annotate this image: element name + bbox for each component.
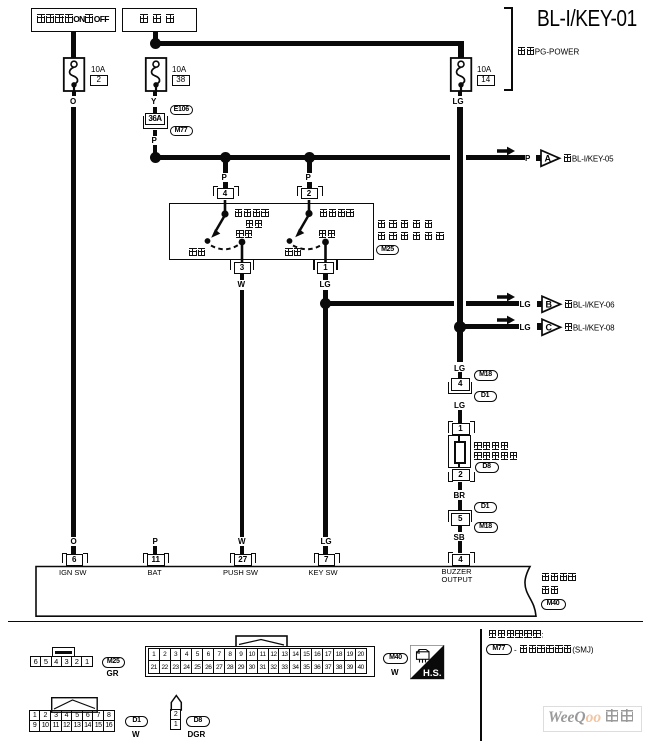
- svg-text:H.S.: H.S.: [423, 668, 441, 679]
- connector oval D8 bottom: [186, 716, 210, 728]
- label KEY SW: [309, 568, 338, 577]
- arrow marker row B: [497, 292, 516, 302]
- label 按下: [236, 230, 254, 240]
- triangle B to BL-I/KEY-06: [541, 295, 563, 314]
- connector D8 pin column: [170, 709, 182, 730]
- arrow marker row C: [497, 315, 516, 325]
- ignition knob switch symbol: [169, 196, 269, 262]
- wire color P at arrow A: [525, 154, 530, 163]
- annotation 单元 unit line 2: [541, 586, 559, 596]
- wire stub below pin 3: [240, 274, 245, 280]
- label 开关: [245, 220, 263, 230]
- triangle A to BL-I/KEY-05: [540, 149, 562, 168]
- wire from battery to junction: [153, 31, 158, 43]
- battery box: [122, 8, 197, 32]
- buzzer label 智能钥匙: [474, 442, 510, 452]
- key switch and ignition knob switch box M25: [169, 203, 374, 260]
- vertical divider bottom right: [480, 629, 482, 741]
- wire color LG at arrow C: [520, 323, 531, 332]
- connector oval M40 unit: [541, 599, 566, 611]
- buzzer label 警告蜂鸣器: [474, 452, 518, 462]
- destination label 至BL-I/KEY-05: [563, 154, 613, 164]
- connector D1 key tab: [51, 697, 98, 713]
- wire LG fuse line from dot to connector M18: [457, 331, 463, 362]
- wire LG down to KEY SW pin: [323, 308, 328, 537]
- wire stub below buzzer: [458, 482, 463, 490]
- wire color LG at arrow B: [520, 300, 531, 309]
- connector square C: [537, 323, 542, 330]
- destination label 至BL-I/KEY-08: [564, 323, 614, 333]
- fuse 3 number box 14: [477, 75, 496, 87]
- PG-POWER bracket: [504, 7, 514, 91]
- LG branch bus row C: [460, 324, 519, 329]
- connector oval M40 bottom: [383, 653, 408, 665]
- pin 7 KEY SW: [314, 553, 339, 567]
- LG junction dot: [320, 298, 331, 309]
- key switch symbol: [253, 196, 353, 262]
- connector oval D1 upper: [474, 391, 497, 402]
- connector M40 pin grid: [148, 648, 367, 673]
- wire stub below fuse 2: [72, 91, 77, 96]
- smart key unit box M40: [34, 564, 544, 620]
- label GR: [107, 669, 119, 678]
- fuse 10A/2: [62, 57, 86, 93]
- wire color P above pin 11: [153, 537, 158, 546]
- LG branch bus left segment: [323, 301, 454, 306]
- pin 11 BAT: [143, 553, 168, 567]
- wire LG to junction: [323, 290, 328, 300]
- note 参见PG-POWER: [517, 47, 579, 57]
- label BUZZER OUTPUT: [442, 568, 473, 585]
- wire color W above pin 27: [238, 537, 246, 546]
- connector oval M18 upper: [474, 370, 498, 381]
- connector oval D1 lower: [474, 502, 497, 513]
- wire BR to connector 5: [458, 500, 463, 511]
- label IGN SW: [59, 568, 87, 577]
- label 松开: [189, 248, 207, 258]
- wire W down to PUSH SW pin: [240, 290, 245, 537]
- connector oval D1 bottom: [125, 716, 148, 728]
- pin 4 of key switch assembly: [213, 186, 238, 200]
- connector oval M25: [376, 245, 399, 256]
- P bus dot at pin 4 tap: [220, 152, 231, 163]
- title BL-I/KEY-01: [537, 7, 637, 30]
- connector square B: [537, 301, 542, 308]
- svg-text:A: A: [545, 154, 552, 164]
- buzzer pin 1: [448, 421, 474, 436]
- connector oval M77 note: [486, 644, 512, 655]
- LG fuse line junction dot row C: [454, 321, 466, 333]
- fuse 10A/38: [144, 57, 168, 93]
- P bus dot at pin 2 tap: [304, 152, 315, 163]
- connector D8 arrow top: [169, 694, 184, 711]
- battery box label 蓄电池: [140, 14, 177, 24]
- label W under D1 oval: [132, 730, 140, 739]
- battery bus wire to fuse 14: [153, 41, 464, 47]
- svg-text:B: B: [546, 300, 553, 310]
- connector oval M18 lower: [474, 522, 498, 533]
- note 参考下列内容:: [488, 630, 544, 640]
- pin 3 of key switch assembly: [230, 260, 255, 274]
- wire color BR: [454, 491, 466, 500]
- wire color LG below pin 1: [320, 280, 331, 289]
- arrow marker row A: [497, 146, 516, 156]
- watermark WeeQoo weiku: [548, 709, 633, 727]
- wire stub into connector M18 pin 4: [458, 372, 463, 379]
- wire LG fuse line down to row C dot: [457, 107, 463, 323]
- fuse 1 number box 2: [90, 75, 108, 87]
- wire stub into pin 4: [223, 182, 228, 189]
- P bus wire right segment past LG crossover: [466, 155, 525, 160]
- connector oval M25 bottom: [102, 657, 126, 668]
- buzzer pin 2: [448, 468, 474, 483]
- fuse 3 rating 10A: [477, 65, 491, 74]
- pin 4 BUZZER OUTPUT: [448, 552, 474, 567]
- fuse 1 rating 10A: [91, 65, 105, 74]
- note M77 super multiple junction 超多路连接器(SMJ): [514, 645, 594, 655]
- connector M25 key tab: [52, 647, 75, 657]
- wire color O above pin 6: [71, 537, 77, 546]
- wire color P at pin 4: [222, 173, 227, 182]
- label 拔出: [285, 248, 303, 258]
- annotation 点火旋钮开关: [377, 232, 444, 242]
- wire Y to connector 36A: [153, 107, 158, 114]
- wire stub into pin 11: [153, 546, 158, 554]
- fuse 2 rating 10A: [172, 65, 186, 74]
- connector oval M77: [170, 126, 193, 137]
- triangle C to BL-I/KEY-08: [541, 318, 563, 337]
- pin 1 of key switch assembly: [313, 260, 338, 274]
- wire color P below 36A: [152, 136, 157, 145]
- ignition switch feed box label 点火开关ON或OFF: [37, 14, 109, 25]
- wire color P at pin 2: [306, 173, 311, 182]
- wire color SB: [454, 533, 465, 542]
- wire stub below fuse 14: [458, 91, 463, 96]
- battery bus corner drop: [458, 41, 464, 58]
- wire O down to IGN SW pin: [71, 107, 76, 537]
- connector D1 pin grid: [29, 710, 115, 731]
- pin 6 IGN SW: [62, 553, 87, 567]
- svg-text:C: C: [546, 322, 553, 332]
- wire color LG below connector M18: [454, 401, 465, 410]
- wire color W: [238, 280, 246, 289]
- label 点火旋钮: [234, 209, 270, 219]
- ignition switch feed box: [31, 8, 116, 32]
- wire stub below pin 1: [323, 274, 328, 280]
- connector M18/D1 pin 4 box: [448, 378, 474, 394]
- label 钥匙开关: [319, 209, 355, 219]
- wire color LG above connector M18 pin 4: [454, 364, 465, 373]
- LG branch bus right segment: [466, 301, 519, 306]
- junction dot battery bus: [150, 38, 161, 49]
- wire stub into pin 6: [71, 546, 76, 554]
- horizontal separator line: [8, 621, 643, 623]
- wire stub into pin 2: [307, 182, 312, 189]
- pin 2 of key switch assembly: [297, 186, 322, 200]
- connector square A: [536, 155, 541, 162]
- P bus wire left segment: [153, 155, 451, 160]
- connector oval E106: [170, 105, 194, 115]
- wire P to bus junction: [153, 145, 158, 154]
- pin 27 PUSH SW: [230, 553, 255, 567]
- wire LG into buzzer: [458, 410, 463, 423]
- label PUSH SW: [223, 568, 258, 577]
- annotation 钥匙开关和: [377, 220, 433, 230]
- H.S. logo: [410, 645, 445, 680]
- fuse 10A/14: [449, 57, 473, 93]
- wire stub into pin 27: [240, 546, 245, 554]
- wire stub below 36A: [153, 130, 158, 136]
- connector M25 pin row: [30, 656, 93, 667]
- connector M40 outer shell: [145, 646, 376, 678]
- connector 36A box: [141, 113, 169, 130]
- wire color LG above pin 7: [321, 537, 332, 546]
- wire tap from P bus to pin 2: [307, 160, 312, 173]
- label 插入: [318, 230, 336, 240]
- wire SB to BUZZER OUTPUT pin: [458, 541, 463, 553]
- wire color Y: [151, 97, 156, 106]
- fuse 2 number box 38: [172, 75, 191, 87]
- label W under M40 oval: [391, 668, 399, 677]
- wire stub into pin 7: [323, 546, 328, 554]
- destination label 至BL-I/KEY-06: [564, 300, 614, 310]
- label BAT: [148, 568, 162, 577]
- label DGR under D8 oval: [188, 730, 206, 739]
- wire stub below connector 5: [458, 526, 463, 532]
- connector D1/M18 pin 5 box: [448, 510, 474, 526]
- smart key warning buzzer body D8: [448, 435, 472, 469]
- wire color LG below fuse 14: [453, 97, 464, 106]
- wire stub below fuse 38: [153, 91, 158, 96]
- wire tap from P bus to pin 4: [223, 160, 228, 173]
- P bus junction dot: [150, 152, 161, 163]
- annotation 智能钥匙 unit line 1: [541, 573, 577, 583]
- wire color O: [70, 97, 76, 106]
- wire from ignition feed to fuse 2: [71, 31, 76, 58]
- connector M40 key tab: [235, 635, 288, 648]
- watermark box: [543, 706, 642, 732]
- connector oval D8 buzzer: [475, 462, 499, 473]
